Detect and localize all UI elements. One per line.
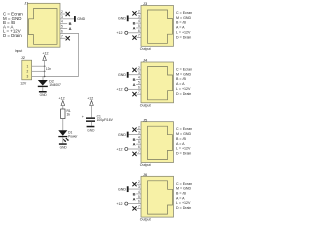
svg-text:7: 7 xyxy=(138,204,140,208)
junction xyxy=(44,76,46,78)
wire R1 to D1 xyxy=(62,119,64,131)
legend for J5 xyxy=(176,127,192,155)
svg-text:1: 1 xyxy=(27,64,29,68)
ground xyxy=(59,143,67,149)
J4 pin numbers xyxy=(138,66,140,94)
svg-text:M = GND: M = GND xyxy=(176,72,191,76)
wire J3 pin6 xyxy=(128,32,141,34)
svg-text:3: 3 xyxy=(27,75,29,79)
wire J6 pin3 xyxy=(128,188,141,190)
svg-text:12V: 12V xyxy=(20,82,27,86)
svg-text:3: 3 xyxy=(138,71,140,75)
J6 pin numbers xyxy=(138,180,140,208)
svg-text:M = GND: M = GND xyxy=(176,16,191,20)
ground xyxy=(39,91,47,97)
svg-text:5: 5 xyxy=(138,80,140,84)
legend (input signal names) xyxy=(3,12,23,39)
svg-text:L = +12V: L = +12V xyxy=(176,201,191,205)
J5 pin numbers xyxy=(138,126,140,154)
wire to D2 xyxy=(42,76,44,80)
svg-text:+12: +12 xyxy=(87,97,93,101)
wire J1 pin5 xyxy=(60,28,67,30)
svg-text:6: 6 xyxy=(138,85,140,89)
svg-text:D = Drain: D = Drain xyxy=(176,92,191,96)
terminal +12 J4 pin6 xyxy=(116,88,127,92)
wire J5 pin2 xyxy=(137,129,141,131)
svg-text:1k: 1k xyxy=(67,113,71,117)
svg-text:2: 2 xyxy=(138,9,140,13)
svg-text:A: A xyxy=(133,82,136,87)
no-connect X J1 pin7 xyxy=(66,36,70,40)
wire J3 pin2 xyxy=(137,12,141,14)
svg-text:+12: +12 xyxy=(42,52,48,56)
wire J1 pin2 xyxy=(60,13,66,15)
wire J6 pin5 xyxy=(136,198,141,200)
svg-text:+: + xyxy=(82,115,84,119)
wire J4 pin2 xyxy=(137,69,141,71)
svg-text:L = +12V: L = +12V xyxy=(176,30,191,34)
wire J5 pin3 xyxy=(128,133,141,135)
no-connect X J4 pin7 xyxy=(132,92,136,96)
connector J5 xyxy=(140,117,174,167)
svg-text:GND: GND xyxy=(77,17,85,21)
wire J4 pin5 xyxy=(136,83,141,85)
svg-text:1N4007: 1N4007 xyxy=(49,83,61,87)
wire J1 pin4 xyxy=(60,23,67,25)
wire D1 to ground xyxy=(62,137,64,143)
svg-text:4: 4 xyxy=(138,190,140,194)
terminal +12 J5 pin6 xyxy=(116,147,127,151)
svg-text:4: 4 xyxy=(138,135,140,139)
no-connect X J6 pin2 xyxy=(132,182,136,186)
svg-text:C = Ecran: C = Ecran xyxy=(176,11,192,15)
wire J1 pin7 xyxy=(60,37,66,39)
+12 arrow for C1 xyxy=(87,97,93,118)
svg-text:5: 5 xyxy=(61,25,63,29)
svg-text:A: A xyxy=(133,196,136,201)
wire J1 pin6 to +12 rail xyxy=(45,33,79,76)
svg-text:A = A: A = A xyxy=(176,142,185,146)
wire J6 pin6 xyxy=(128,203,141,205)
wire J5 pin7 xyxy=(137,153,141,155)
wire J3 pin5 xyxy=(136,27,141,29)
svg-text:7: 7 xyxy=(138,90,140,94)
wire J5 pin4 xyxy=(136,138,141,140)
svg-text:A = A: A = A xyxy=(176,196,185,200)
svg-text:B = /B: B = /B xyxy=(176,21,186,25)
svg-text:2: 2 xyxy=(138,126,140,130)
svg-text:2: 2 xyxy=(138,66,140,70)
svg-text:Input: Input xyxy=(15,49,22,53)
svg-text:GND: GND xyxy=(87,128,95,132)
J1 pin numbers xyxy=(61,10,63,38)
connector J3 xyxy=(140,1,174,51)
svg-text:Output: Output xyxy=(140,163,151,167)
svg-text:GND: GND xyxy=(118,187,126,191)
legend for J6 xyxy=(176,182,192,210)
junction xyxy=(44,65,46,67)
svg-text:2: 2 xyxy=(138,180,140,184)
connector J4 xyxy=(140,58,174,108)
svg-text:+12: +12 xyxy=(116,147,122,151)
svg-text:6: 6 xyxy=(138,29,140,33)
svg-text:Output: Output xyxy=(140,218,151,222)
wire J6 pin4 xyxy=(136,193,141,195)
svg-text:+12: +12 xyxy=(116,202,122,206)
svg-text:A: A xyxy=(133,142,136,147)
wire J2 pin2 xyxy=(32,70,45,72)
svg-text:12n: 12n xyxy=(46,67,52,71)
svg-text:M = GND: M = GND xyxy=(176,187,191,191)
svg-text:2: 2 xyxy=(27,70,29,74)
diode D2 xyxy=(38,80,61,88)
wire C1 to ground xyxy=(91,122,93,126)
wire J3 pin4 xyxy=(136,22,141,24)
svg-text:+12: +12 xyxy=(59,97,65,101)
junction xyxy=(44,71,46,73)
connector J6 xyxy=(140,172,174,222)
wire J3 pin7 xyxy=(137,37,141,39)
svg-text:GND: GND xyxy=(40,93,48,97)
svg-text:L = +12V: L = +12V xyxy=(176,87,191,91)
svg-text:7: 7 xyxy=(138,150,140,154)
no-connect X J3 pin2 xyxy=(132,11,136,15)
svg-text:D = Drain: D = Drain xyxy=(176,35,191,39)
ground bar J6 pin3 xyxy=(118,186,129,192)
connector J2 xyxy=(20,55,31,85)
no-connect X J5 pin7 xyxy=(132,152,136,156)
svg-text:GND: GND xyxy=(118,17,126,21)
svg-text:M = GND: M = GND xyxy=(176,132,191,136)
svg-text:B = /B: B = /B xyxy=(176,77,186,81)
LED D1 xyxy=(58,130,78,142)
svg-text:5: 5 xyxy=(138,140,140,144)
svg-text:2: 2 xyxy=(61,10,63,14)
svg-text:Output: Output xyxy=(140,47,151,51)
svg-text:5: 5 xyxy=(138,195,140,199)
terminal +12 J3 pin6 xyxy=(116,31,127,35)
svg-text:A = A: A = A xyxy=(176,26,185,30)
svg-text:7: 7 xyxy=(138,34,140,38)
legend for J3 xyxy=(176,11,192,39)
svg-text:B = /B: B = /B xyxy=(176,137,186,141)
wire J1 pin3 xyxy=(60,18,74,20)
capacitor C1 xyxy=(82,115,114,123)
svg-text:3: 3 xyxy=(138,14,140,18)
ground bar J4 pin3 xyxy=(118,72,129,78)
wire J4 pin3 xyxy=(128,74,141,76)
ground bar J3 pin3 xyxy=(118,15,129,21)
+12 arrow for R1 xyxy=(59,97,65,109)
svg-text:3: 3 xyxy=(138,185,140,189)
ground bar J5 pin3 xyxy=(118,132,129,138)
no-connect X J6 pin7 xyxy=(132,206,136,210)
wire J2 pin1 xyxy=(32,65,45,67)
wire J4 pin6 xyxy=(128,88,141,90)
svg-text:3: 3 xyxy=(61,15,63,19)
svg-text:100µF/16V: 100µF/16V xyxy=(97,118,114,122)
svg-text:D = Drain: D = Drain xyxy=(176,151,191,155)
svg-text:C = Ecran: C = Ecran xyxy=(176,182,192,186)
svg-text:GND: GND xyxy=(118,73,126,77)
svg-text:3: 3 xyxy=(138,130,140,134)
terminal +12 J6 pin6 xyxy=(116,202,127,206)
svg-text:D = Drain: D = Drain xyxy=(3,33,22,38)
svg-text:6: 6 xyxy=(61,29,63,33)
resistor R1 xyxy=(61,109,71,119)
no-connect X J3 pin7 xyxy=(132,36,136,40)
wire J6 pin7 xyxy=(137,207,141,209)
J3 pin numbers xyxy=(138,9,140,37)
no-connect X J5 pin2 xyxy=(132,128,136,132)
legend for J4 xyxy=(176,68,192,96)
svg-text:5: 5 xyxy=(138,24,140,28)
svg-text:Output: Output xyxy=(140,103,151,107)
svg-text:6: 6 xyxy=(138,200,140,204)
svg-text:Power: Power xyxy=(68,134,78,138)
wire J4 pin7 xyxy=(137,93,141,95)
svg-text:+12: +12 xyxy=(116,31,122,35)
ground bar J1 pin3 xyxy=(74,16,86,22)
wire +12 stem down to D2 xyxy=(44,61,46,77)
svg-text:7: 7 xyxy=(61,34,63,38)
svg-text:B = /B: B = /B xyxy=(176,192,186,196)
svg-text:4: 4 xyxy=(138,19,140,23)
connector J1 xyxy=(15,0,60,53)
no-connect X J4 pin2 xyxy=(132,68,136,72)
no-connect X J1 pin2 xyxy=(66,12,70,16)
svg-text:A: A xyxy=(69,26,72,31)
svg-text:4: 4 xyxy=(138,76,140,80)
svg-text:A: A xyxy=(133,25,136,30)
svg-text:GND: GND xyxy=(118,133,126,137)
wire J2 pin3 (+12 rail) xyxy=(32,75,45,77)
wire J4 pin4 xyxy=(136,79,141,81)
ground xyxy=(87,126,95,133)
svg-text:C = Ecran: C = Ecran xyxy=(176,127,192,131)
wire J5 pin6 xyxy=(128,148,141,150)
wire D2 to ground xyxy=(42,87,44,91)
svg-text:4: 4 xyxy=(61,20,63,24)
svg-text:A = A: A = A xyxy=(176,82,185,86)
wire J5 pin5 xyxy=(136,143,141,145)
svg-text:C = Ecran: C = Ecran xyxy=(176,68,192,72)
wire J3 pin3 xyxy=(128,17,141,19)
svg-text:+12: +12 xyxy=(116,88,122,92)
svg-text:6: 6 xyxy=(138,145,140,149)
wire J6 pin2 xyxy=(137,183,141,185)
svg-text:L = +12V: L = +12V xyxy=(176,147,191,151)
+12 supply arrow near J2 xyxy=(42,52,48,61)
svg-text:GND: GND xyxy=(60,146,68,150)
svg-text:D = Drain: D = Drain xyxy=(176,206,191,210)
